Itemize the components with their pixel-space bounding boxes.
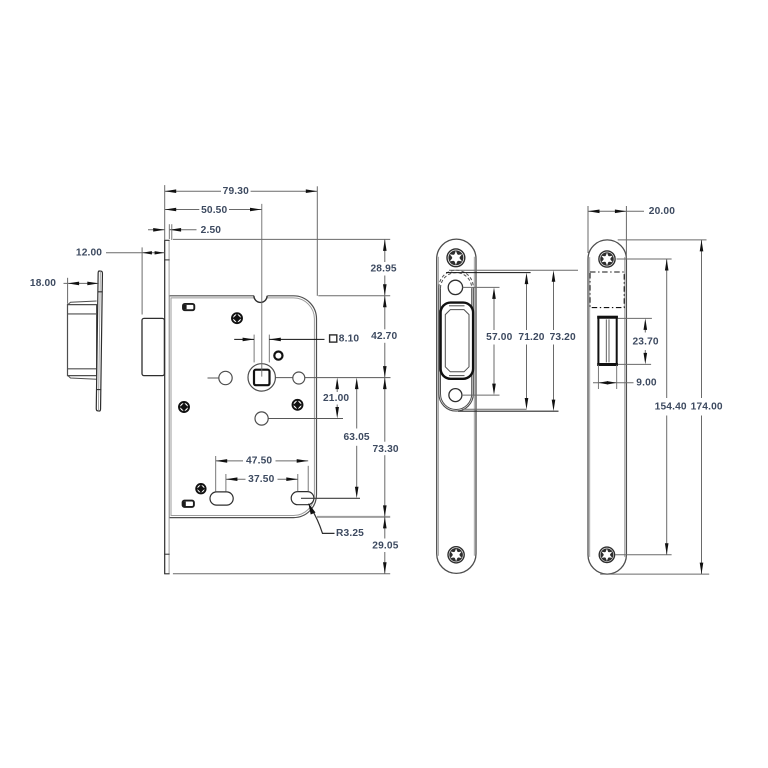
keeper plate inner edge lines [437, 257, 439, 556]
dim 71.20 arrows [525, 273, 529, 285]
dim 9.00 arrows [598, 381, 608, 384]
hole right of spindle [293, 372, 305, 384]
svg-text:20.00: 20.00 [649, 206, 675, 217]
dim 174.00 line [701, 240, 703, 398]
dim 21.00 arrows [335, 378, 339, 390]
faceplate torx hole bottom [599, 547, 614, 562]
dim 28.95 arrows [383, 239, 387, 251]
dim 8.10 left arrow with tail [234, 338, 254, 340]
ext line top hole centre [617, 258, 672, 260]
dim 57.00 arrows [492, 287, 496, 299]
dim 37.50 extension lines [225, 474, 227, 492]
keeper boss outer top arc dashed [439, 270, 473, 287]
svg-text:R3.25: R3.25 [336, 528, 364, 539]
dim 23.70 line [644, 323, 646, 333]
ext line bottom hole centre [615, 554, 672, 556]
hole left of spindle [219, 371, 232, 384]
front view faceplate edge strip [164, 240, 169, 574]
side view case top bevel [68, 301, 97, 305]
dim 42.70 arrows [383, 296, 387, 308]
svg-text:63.05: 63.05 [343, 432, 369, 443]
svg-text:57.00: 57.00 [486, 332, 512, 343]
svg-text:2.50: 2.50 [201, 225, 222, 236]
svg-text:23.70: 23.70 [632, 336, 658, 347]
keeper plate outline [437, 239, 476, 573]
faceplate torx hole top [599, 251, 615, 267]
dim 18.00 left arrow [68, 282, 80, 286]
ext line boss inner top [446, 272, 531, 274]
svg-text:18.00: 18.00 [30, 278, 56, 289]
dim 50.50 extension line to spindle [261, 204, 263, 377]
keeper screw hole top [448, 280, 462, 294]
dim 37.50 line [226, 478, 246, 480]
keeper latch window inner [445, 310, 469, 372]
keeper latch window outer [441, 303, 474, 379]
ext line boss outer bottom [458, 410, 559, 412]
ext line plate top [618, 239, 707, 241]
keeper plate torx hole bottom [448, 547, 464, 563]
dim 73.20 line [553, 274, 555, 330]
ext line boss inner bottom [462, 408, 527, 410]
front view lock body inner fold line [171, 298, 314, 516]
dim 8.10 square symbol [330, 335, 337, 342]
extension line body top [318, 295, 390, 297]
dim 79.30 left arrow [165, 189, 177, 193]
svg-text:37.50: 37.50 [248, 474, 274, 485]
svg-text:174.00: 174.00 [691, 402, 723, 413]
dim 79.30 left extension line [164, 185, 166, 240]
faceplate latch slot [598, 317, 616, 365]
dim 20.00 extension lines [587, 206, 589, 253]
dim 29.05 arrows [383, 517, 387, 529]
svg-text:73.30: 73.30 [372, 444, 398, 455]
spindle square hole 8.10 [254, 370, 270, 386]
dim 79.30 right arrow [306, 189, 318, 193]
svg-text:79.30: 79.30 [223, 186, 249, 197]
dim 12.00 extension line [141, 247, 143, 314]
front view faceplate tangent tick bottom [164, 553, 169, 555]
dim 12.00 right arrow [155, 251, 165, 254]
dim 2.50 extension line [168, 224, 170, 239]
ext line boss outer top [449, 269, 578, 271]
extension line plate top [173, 238, 390, 240]
dim 12.00 line [106, 252, 164, 254]
svg-text:50.50: 50.50 [201, 205, 227, 216]
ext line hole bottom [462, 394, 500, 396]
keeper latch window top tick [449, 305, 465, 307]
dim 9.00 line [593, 382, 634, 384]
bottom slot row extension line [301, 497, 360, 499]
svg-text:8.10: 8.10 [339, 334, 360, 345]
screw right [293, 400, 303, 410]
dim 18.00 line [64, 282, 99, 284]
dim 8.10 extension lines [253, 335, 255, 363]
faceplate inner edge lines [589, 257, 591, 557]
keeper boss inner top arc dashed [441, 273, 472, 289]
svg-text:42.70: 42.70 [371, 331, 397, 342]
dim 73.20 arrows [552, 270, 556, 282]
dim 47.50 extension lines [215, 456, 217, 492]
dim 8.10 right arrow with tail [269, 338, 324, 340]
front view top notch [254, 295, 268, 303]
side view lock case outline [68, 305, 97, 376]
dim 73.30 arrows [383, 378, 387, 390]
dim 37.50 arrows [226, 477, 238, 481]
svg-text:21.00: 21.00 [323, 393, 349, 404]
faceplate latch slot centre lines [605, 319, 607, 362]
svg-text:73.20: 73.20 [550, 332, 576, 343]
dim 57.00 line [493, 292, 495, 331]
dim 2.50 extension line 2 [171, 224, 173, 240]
ext line slot bottom [618, 363, 651, 365]
front view follower protrusion box [142, 318, 164, 375]
cylinder pin hole [274, 352, 282, 360]
keeper boss inner outline [441, 288, 472, 409]
side view case bottom bevel [68, 376, 97, 380]
dim 20.00 line [588, 210, 626, 212]
side view case bottom fold line [68, 368, 97, 370]
dim 50.50 line [165, 209, 200, 211]
side view case top fold line [68, 313, 97, 315]
ext line slot top [618, 317, 652, 319]
svg-text:71.20: 71.20 [518, 332, 544, 343]
lower hole row extension line [268, 418, 343, 420]
dim 18.00 extension line [67, 278, 69, 304]
dim 29.05 line [384, 517, 386, 539]
svg-text:9.00: 9.00 [636, 378, 657, 389]
ext line plate bottom [600, 573, 709, 575]
svg-text:47.50: 47.50 [246, 456, 272, 467]
dim 20.00 arrows [588, 210, 600, 214]
dim 50.50 right arrow [250, 208, 262, 212]
faceplate outline [588, 240, 626, 574]
leader R3.25 [310, 507, 335, 534]
spindle circle [248, 364, 275, 391]
faceplate slot lower extension lines [597, 365, 599, 389]
svg-text:154.40: 154.40 [655, 402, 687, 413]
dim 63.05 arrows [355, 378, 359, 390]
dim 42.70 line [384, 296, 386, 330]
extension line plate bottom [173, 573, 390, 575]
dim 79.30 right extension line [316, 186, 318, 295]
dim 73.30 line [384, 378, 386, 442]
svg-text:28.95: 28.95 [370, 264, 396, 275]
dim 71.20 line [526, 277, 528, 331]
screw bottom-left [196, 484, 205, 493]
lower hole [255, 412, 268, 425]
dim 154.40 line [666, 259, 668, 398]
stamped slot top-left [183, 304, 194, 310]
dim 47.50 arrows [216, 459, 228, 463]
dim 21.00 line [336, 382, 338, 392]
dim 154.40 arrows [665, 259, 669, 271]
spindle row extension line [208, 377, 219, 379]
dim 174.00 arrows [700, 240, 704, 252]
screw left [179, 402, 189, 412]
keeper boss outer outline [439, 287, 473, 411]
dim 23.70 arrows [644, 318, 648, 330]
keeper plate torx hole top [447, 249, 465, 267]
extension line body bottom [317, 516, 390, 518]
screw top [232, 313, 242, 323]
svg-text:29.05: 29.05 [372, 540, 398, 551]
dim 2.50 right arrow with tail [170, 229, 197, 231]
front view lock body outer outline [169, 296, 316, 518]
mounting slot bottom-left [210, 492, 233, 505]
dim 2.50 left arrow with tail [148, 229, 165, 231]
dim 18.00 right arrow [87, 282, 99, 286]
faceplate magnet dashed rectangle [590, 272, 624, 308]
mounting slot bottom-right [291, 492, 314, 505]
svg-text:12.00: 12.00 [76, 248, 102, 259]
side view faceplate [96, 271, 103, 411]
keeper latch window bottom tick [449, 375, 465, 377]
dim 47.50 line [216, 460, 243, 462]
dim 63.05 line [356, 382, 358, 429]
ext line hole top [463, 286, 500, 288]
stamped slot bottom-left [183, 501, 194, 507]
dim 12.00 left arrow [142, 251, 152, 254]
front view faceplate tangent tick top [164, 259, 169, 261]
keeper screw hole bottom [449, 389, 462, 402]
dim 28.95 line [384, 239, 386, 262]
dim 50.50 left arrow [165, 208, 177, 212]
dim 79.30 line [165, 190, 221, 192]
